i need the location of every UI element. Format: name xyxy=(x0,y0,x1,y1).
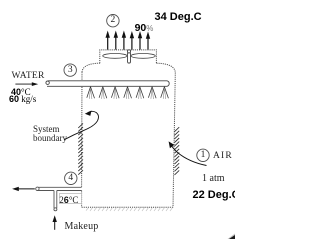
nozzle 5 xyxy=(136,87,140,98)
water inlet pipe (node 3 header) xyxy=(47,81,169,87)
system boundary loop arrow xyxy=(64,111,98,140)
wire bottom xyxy=(82,206,173,208)
label System boundary xyxy=(33,125,67,144)
label Makeup xyxy=(65,221,99,232)
26degC text box xyxy=(60,193,82,203)
arrow up 3 xyxy=(123,37,125,50)
node number 2 xyxy=(107,15,119,25)
hatch marks right wall (louver) xyxy=(175,127,180,175)
wire right shoulder curve xyxy=(156,63,175,72)
nozzle sprays inner rays xyxy=(89,89,166,100)
air arrowhead xyxy=(169,141,175,148)
hatch marks bottom edge xyxy=(86,208,173,211)
label 90% xyxy=(135,22,154,34)
wire left shoulder curve xyxy=(82,63,100,72)
node 2 circle xyxy=(107,15,119,27)
label 34 Deg.C xyxy=(155,11,202,23)
node 3 circle xyxy=(64,64,76,76)
nozzle 7 xyxy=(161,87,165,98)
node 1 circle xyxy=(197,149,209,161)
exit air arrows xyxy=(106,31,151,50)
fan hub top circle xyxy=(127,50,130,53)
nozzle 6 xyxy=(148,87,152,98)
node number 1 xyxy=(197,150,209,160)
nozzle 2 xyxy=(99,87,103,98)
makeup branch cap circle xyxy=(54,208,57,211)
outlet pipe end cap circle xyxy=(36,187,39,190)
nozzle 1 xyxy=(87,87,91,98)
WATER inlet arrow xyxy=(15,82,38,86)
label 60 kg/s xyxy=(9,94,36,104)
arrow up 2 xyxy=(115,37,117,50)
inlet pipe end cap circle xyxy=(46,81,49,84)
fan blade right xyxy=(131,54,155,59)
arrow up 5 xyxy=(139,38,141,50)
makeup branch pipe xyxy=(54,191,57,209)
label 1 atm xyxy=(202,173,225,184)
arrow up 4 xyxy=(131,38,133,50)
wire right wall xyxy=(173,73,175,208)
wire outlet pipe bottom right segment xyxy=(57,190,82,192)
system boundary arrowhead xyxy=(85,111,92,116)
water outlet arrow xyxy=(12,187,35,191)
fan housing U1 outline xyxy=(100,50,157,63)
air inlet curved arrow xyxy=(171,144,207,166)
spray nozzles xyxy=(87,87,169,99)
label 22 Deg.C xyxy=(193,189,240,201)
label AIR xyxy=(213,151,233,161)
wire outlet pipe top xyxy=(39,186,82,188)
wire outlet pipe bottom xyxy=(38,190,55,192)
label 40 C xyxy=(11,87,31,97)
label WATER xyxy=(12,71,45,81)
nozzle 3 xyxy=(111,87,115,98)
node number 4 xyxy=(65,173,77,183)
wire left wall xyxy=(81,72,83,187)
nozzle 4 xyxy=(124,87,128,98)
outlet pipe (node 4) xyxy=(38,187,82,208)
fan blade left xyxy=(103,54,127,59)
hatch marks left wall (louver) xyxy=(78,123,83,174)
makeup arrow xyxy=(53,215,57,230)
arrow up 6 xyxy=(147,38,149,50)
tower shell (cooling tower body, dotted outline) xyxy=(82,50,176,207)
node number 3 xyxy=(64,65,76,75)
node 4 circle xyxy=(65,172,77,184)
fan hub motor xyxy=(128,52,131,63)
arrow up 1 xyxy=(107,37,109,50)
wire left wall lower segment xyxy=(81,191,83,208)
label 26 C xyxy=(59,195,78,205)
corner blob bottom right xyxy=(228,234,236,240)
